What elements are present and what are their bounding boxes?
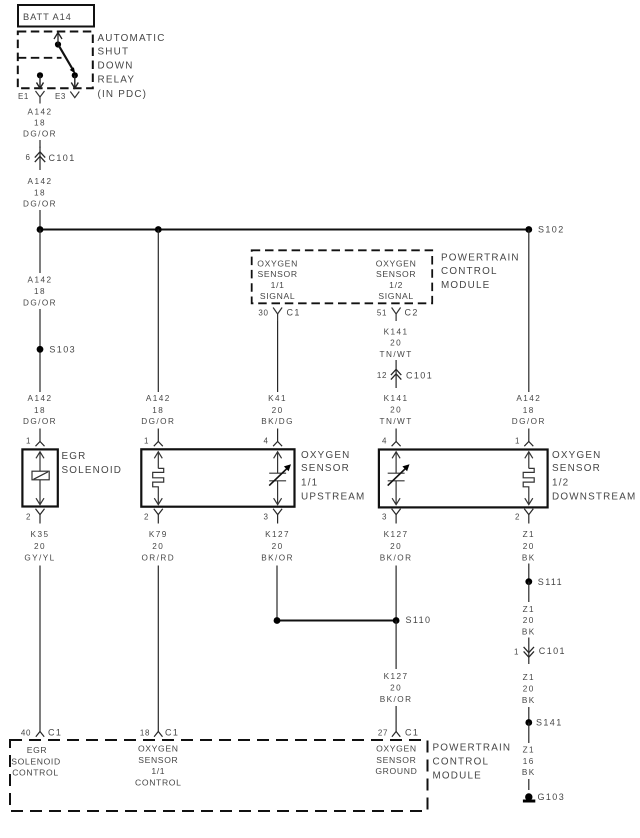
svg-text:4: 4	[263, 437, 268, 446]
svg-text:20: 20	[523, 542, 535, 551]
svg-text:K141: K141	[384, 394, 409, 403]
pin 4 connector into O2 1/1	[263, 429, 282, 447]
svg-text:POWERTRAIN: POWERTRAIN	[441, 253, 520, 264]
EGR solenoid box	[22, 449, 122, 506]
svg-text:20: 20	[152, 542, 164, 551]
wire label A142 18 DG/OR (top)	[23, 108, 57, 139]
svg-text:CONTROL: CONTROL	[441, 266, 498, 277]
pin 3 connector below O2 1/1	[263, 509, 282, 524]
svg-text:DOWNSTREAM: DOWNSTREAM	[552, 491, 636, 502]
wire	[528, 779, 530, 790]
svg-text:SOLENOID: SOLENOID	[11, 756, 61, 766]
svg-text:S110: S110	[406, 615, 432, 625]
svg-text:AUTOMATIC: AUTOMATIC	[98, 33, 166, 44]
svg-text:SHUT: SHUT	[98, 47, 130, 58]
connector C101 pin 12	[377, 360, 433, 388]
powertrain control module bottom dashed box	[10, 740, 428, 811]
wire label K79 20 OR/RD	[141, 530, 175, 562]
svg-text:18: 18	[34, 406, 46, 415]
oxygen sensor ground label	[375, 744, 417, 777]
wire label K127 20 BK/OR (col3)	[261, 530, 294, 562]
pin 1 connector into EGR	[26, 429, 45, 447]
wire	[528, 564, 530, 582]
svg-text:A142: A142	[28, 108, 53, 117]
wire label A142 18 DG/OR (below C101)	[23, 177, 57, 209]
svg-text:BK/OR: BK/OR	[261, 553, 294, 562]
svg-text:GROUND: GROUND	[375, 766, 417, 776]
svg-text:DG/OR: DG/OR	[141, 417, 175, 426]
splice S141	[525, 718, 562, 728]
svg-text:18: 18	[34, 119, 46, 128]
svg-text:A142: A142	[28, 177, 53, 186]
svg-text:BK: BK	[522, 628, 536, 637]
svg-text:2: 2	[144, 513, 149, 522]
svg-text:BK/DG: BK/DG	[261, 417, 294, 426]
svg-text:C1: C1	[165, 728, 179, 738]
svg-text:POWERTRAIN: POWERTRAIN	[433, 743, 512, 754]
wire	[528, 723, 530, 744]
oxygen sensor 1/2 downstream box	[379, 450, 637, 508]
splice bus wire to S102	[40, 229, 529, 231]
wire label A142 18 DG/OR (below junction)	[23, 276, 57, 308]
wire label A142 18 DG/OR (above EGR)	[23, 394, 57, 426]
wire col2	[157, 230, 159, 393]
svg-text:OXYGEN: OXYGEN	[257, 258, 298, 268]
wire col3 to S110	[276, 566, 278, 621]
svg-text:A142: A142	[516, 394, 541, 403]
wire label Z1 20 BK (mid col5)	[522, 605, 536, 637]
svg-text:1: 1	[26, 437, 31, 446]
EGR solenoid control label	[11, 745, 61, 778]
svg-text:SENSOR: SENSOR	[376, 269, 416, 279]
svg-text:Z1: Z1	[523, 673, 535, 682]
svg-text:30: 30	[258, 309, 268, 318]
wire col1 long	[39, 566, 41, 727]
svg-text:18: 18	[34, 287, 46, 296]
pin 3 connector below O2 1/2	[382, 509, 401, 524]
svg-text:OXYGEN: OXYGEN	[552, 450, 601, 461]
wire label K41 20 BK/DG	[261, 394, 294, 426]
svg-text:C1: C1	[48, 728, 62, 738]
svg-text:C1: C1	[405, 728, 419, 738]
svg-text:K127: K127	[384, 672, 409, 681]
svg-text:C101: C101	[406, 371, 433, 381]
svg-text:OXYGEN: OXYGEN	[376, 744, 417, 754]
wire label K141 20 TN/WT (upper)	[380, 327, 413, 358]
relay terminal E1	[18, 72, 45, 103]
O2 1/2 sensing element	[388, 452, 410, 505]
connector C2 pin 51	[377, 308, 419, 322]
oxygen sensor 1/1 control label	[135, 744, 182, 788]
svg-text:UPSTREAM: UPSTREAM	[301, 491, 365, 502]
svg-text:RELAY: RELAY	[98, 75, 136, 86]
svg-text:3: 3	[263, 513, 268, 522]
svg-text:E1: E1	[18, 92, 29, 101]
connector C1 pin 30	[258, 308, 300, 322]
svg-text:DG/OR: DG/OR	[512, 417, 546, 426]
svg-text:1: 1	[514, 648, 519, 657]
svg-text:SENSOR: SENSOR	[257, 269, 297, 279]
pin 2 connector below EGR	[26, 509, 45, 524]
svg-text:18: 18	[523, 406, 535, 415]
svg-text:1/1: 1/1	[151, 766, 165, 776]
svg-text:Z1: Z1	[523, 530, 535, 539]
svg-text:EGR: EGR	[27, 745, 48, 755]
svg-text:27: 27	[378, 729, 388, 738]
svg-text:K127: K127	[265, 530, 290, 539]
splice S102	[525, 225, 564, 235]
svg-text:DOWN: DOWN	[98, 61, 134, 72]
pin 1 connector into O2 1/2	[515, 429, 533, 447]
svg-text:(IN PDC): (IN PDC)	[98, 89, 148, 100]
svg-text:G103: G103	[538, 792, 566, 802]
svg-text:DG/OR: DG/OR	[23, 299, 57, 308]
wire col4 to S110	[395, 566, 397, 621]
connector C1 pin 40	[21, 727, 62, 738]
svg-text:S141: S141	[536, 718, 563, 728]
wire label K127 20 BK/OR (col4)	[380, 530, 413, 562]
svg-text:2: 2	[515, 513, 520, 522]
svg-text:BK/OR: BK/OR	[380, 553, 413, 562]
svg-text:20: 20	[390, 406, 402, 415]
svg-text:18: 18	[152, 406, 164, 415]
wire	[528, 707, 530, 723]
svg-text:SENSOR: SENSOR	[138, 755, 178, 765]
svg-text:MODULE: MODULE	[433, 771, 482, 782]
junction node col1	[37, 226, 44, 233]
splice S110 bus	[274, 615, 432, 625]
svg-text:OXYGEN: OXYGEN	[376, 258, 417, 268]
wire	[528, 582, 530, 602]
svg-text:SOLENOID: SOLENOID	[62, 465, 123, 476]
svg-text:S103: S103	[49, 345, 76, 355]
wire label A142 18 DG/OR (col2)	[141, 394, 175, 426]
svg-text:S111: S111	[538, 577, 563, 587]
svg-text:1: 1	[144, 437, 149, 446]
svg-text:1/2: 1/2	[389, 280, 403, 290]
svg-text:CONTROL: CONTROL	[433, 757, 490, 768]
svg-text:12: 12	[377, 371, 387, 380]
svg-text:16: 16	[523, 757, 535, 766]
connector C101 pin 6	[25, 147, 75, 171]
svg-text:S102: S102	[538, 225, 565, 235]
svg-text:SIGNAL: SIGNAL	[260, 291, 295, 301]
svg-text:20: 20	[523, 685, 535, 694]
pin 2 connector below O2 1/2	[515, 509, 533, 524]
svg-text:18: 18	[34, 188, 46, 197]
svg-text:BK: BK	[522, 696, 536, 705]
svg-text:2: 2	[26, 513, 31, 522]
svg-text:K41: K41	[268, 394, 287, 403]
connector C1 pin 27	[378, 727, 419, 738]
svg-text:OXYGEN: OXYGEN	[301, 450, 350, 461]
svg-text:20: 20	[523, 616, 535, 625]
oxygen sensor 1/1 upstream box	[141, 449, 365, 506]
O2 1/1 heater element	[153, 452, 164, 505]
svg-text:MODULE: MODULE	[441, 280, 490, 291]
EGR solenoid element	[32, 452, 49, 505]
svg-text:Z1: Z1	[523, 605, 535, 614]
powertrain control module label (bottom)	[433, 743, 512, 782]
svg-text:C101: C101	[539, 646, 566, 656]
svg-text:20: 20	[390, 542, 402, 551]
svg-text:C101: C101	[49, 153, 76, 163]
svg-text:A142: A142	[28, 276, 53, 285]
wire col4 below S110	[395, 621, 397, 670]
svg-text:TN/WT: TN/WT	[380, 417, 413, 426]
svg-text:BK/OR: BK/OR	[380, 695, 413, 704]
wire label Z1 16 BK	[522, 746, 536, 778]
svg-text:A142: A142	[146, 394, 171, 403]
svg-text:BK: BK	[522, 553, 536, 562]
pin 4 connector into O2 1/2	[382, 429, 401, 447]
wire label K141 20 TN/WT (lower)	[380, 394, 413, 426]
svg-text:20: 20	[272, 406, 284, 415]
svg-text:SENSOR: SENSOR	[376, 755, 416, 765]
svg-text:OR/RD: OR/RD	[141, 553, 175, 562]
svg-text:CONTROL: CONTROL	[12, 768, 59, 778]
relay label	[98, 33, 166, 100]
wire label Z1 20 BK (lower col5)	[522, 673, 536, 705]
svg-text:20: 20	[390, 339, 402, 348]
svg-text:20: 20	[272, 542, 284, 551]
svg-text:OXYGEN: OXYGEN	[138, 744, 179, 754]
svg-text:A142: A142	[28, 394, 53, 403]
svg-text:C2: C2	[405, 308, 419, 318]
wire	[39, 230, 41, 274]
svg-text:1/1: 1/1	[271, 280, 285, 290]
svg-text:K79: K79	[149, 530, 168, 539]
svg-text:20: 20	[390, 684, 402, 693]
pin 1 connector into O2 1/1	[144, 429, 163, 447]
pin 2 connector below O2 1/1	[144, 509, 163, 524]
wire	[395, 706, 397, 727]
wire	[39, 309, 41, 392]
svg-text:K127: K127	[384, 530, 409, 539]
svg-text:DG/OR: DG/OR	[23, 200, 57, 209]
ground G103	[523, 792, 565, 802]
wire label Z1 20 BK (upper col5)	[522, 530, 536, 562]
wire col2 long	[157, 566, 159, 727]
powertrain control module label (top)	[441, 253, 520, 291]
BATT A14 feed box	[18, 5, 94, 27]
svg-text:SENSOR: SENSOR	[552, 463, 601, 474]
svg-text:EGR: EGR	[62, 451, 87, 462]
svg-text:SENSOR: SENSOR	[301, 463, 350, 474]
svg-text:CONTROL: CONTROL	[135, 777, 182, 787]
wire col3	[277, 321, 279, 392]
svg-text:18: 18	[140, 729, 150, 738]
svg-text:E3: E3	[55, 92, 66, 101]
svg-text:BK: BK	[522, 768, 536, 777]
svg-text:BATT A14: BATT A14	[23, 12, 72, 22]
relay switch	[54, 33, 75, 74]
svg-text:1: 1	[515, 437, 520, 446]
wire col5	[528, 230, 530, 393]
relay terminal E3	[55, 72, 79, 101]
wire	[39, 140, 41, 148]
svg-text:K141: K141	[384, 327, 409, 336]
wire label A142 18 DG/OR (col5)	[512, 394, 546, 426]
svg-text:TN/WT: TN/WT	[380, 350, 413, 359]
svg-text:GY/YL: GY/YL	[24, 553, 55, 562]
connector C1 pin 18	[140, 727, 179, 738]
svg-text:1/2: 1/2	[552, 477, 569, 488]
svg-text:3: 3	[382, 513, 387, 522]
wire label K127 20 BK/OR (lower col4)	[380, 672, 413, 704]
svg-text:20: 20	[34, 542, 46, 551]
wire	[39, 210, 41, 230]
svg-text:4: 4	[382, 437, 387, 446]
junction node col2	[155, 226, 162, 233]
splice S111	[525, 577, 563, 587]
svg-text:DG/OR: DG/OR	[23, 130, 57, 139]
powertrain control module top dashed box	[252, 250, 433, 303]
svg-text:51: 51	[377, 309, 387, 318]
svg-text:K35: K35	[31, 530, 50, 539]
svg-text:DG/OR: DG/OR	[23, 417, 57, 426]
O2 1/2 heater element	[523, 452, 534, 505]
svg-text:SIGNAL: SIGNAL	[378, 291, 413, 301]
svg-text:40: 40	[21, 729, 31, 738]
svg-text:6: 6	[25, 153, 30, 162]
automatic shut down relay dashed box	[18, 32, 93, 89]
splice S103	[37, 345, 76, 355]
svg-text:C1: C1	[287, 308, 301, 318]
O2 1/1 sensing element	[269, 452, 291, 505]
wire label K35 20 GY/YL	[24, 530, 55, 562]
svg-text:Z1: Z1	[523, 746, 535, 755]
connector C101 pin 1	[514, 638, 566, 665]
svg-text:1/1: 1/1	[301, 477, 318, 488]
